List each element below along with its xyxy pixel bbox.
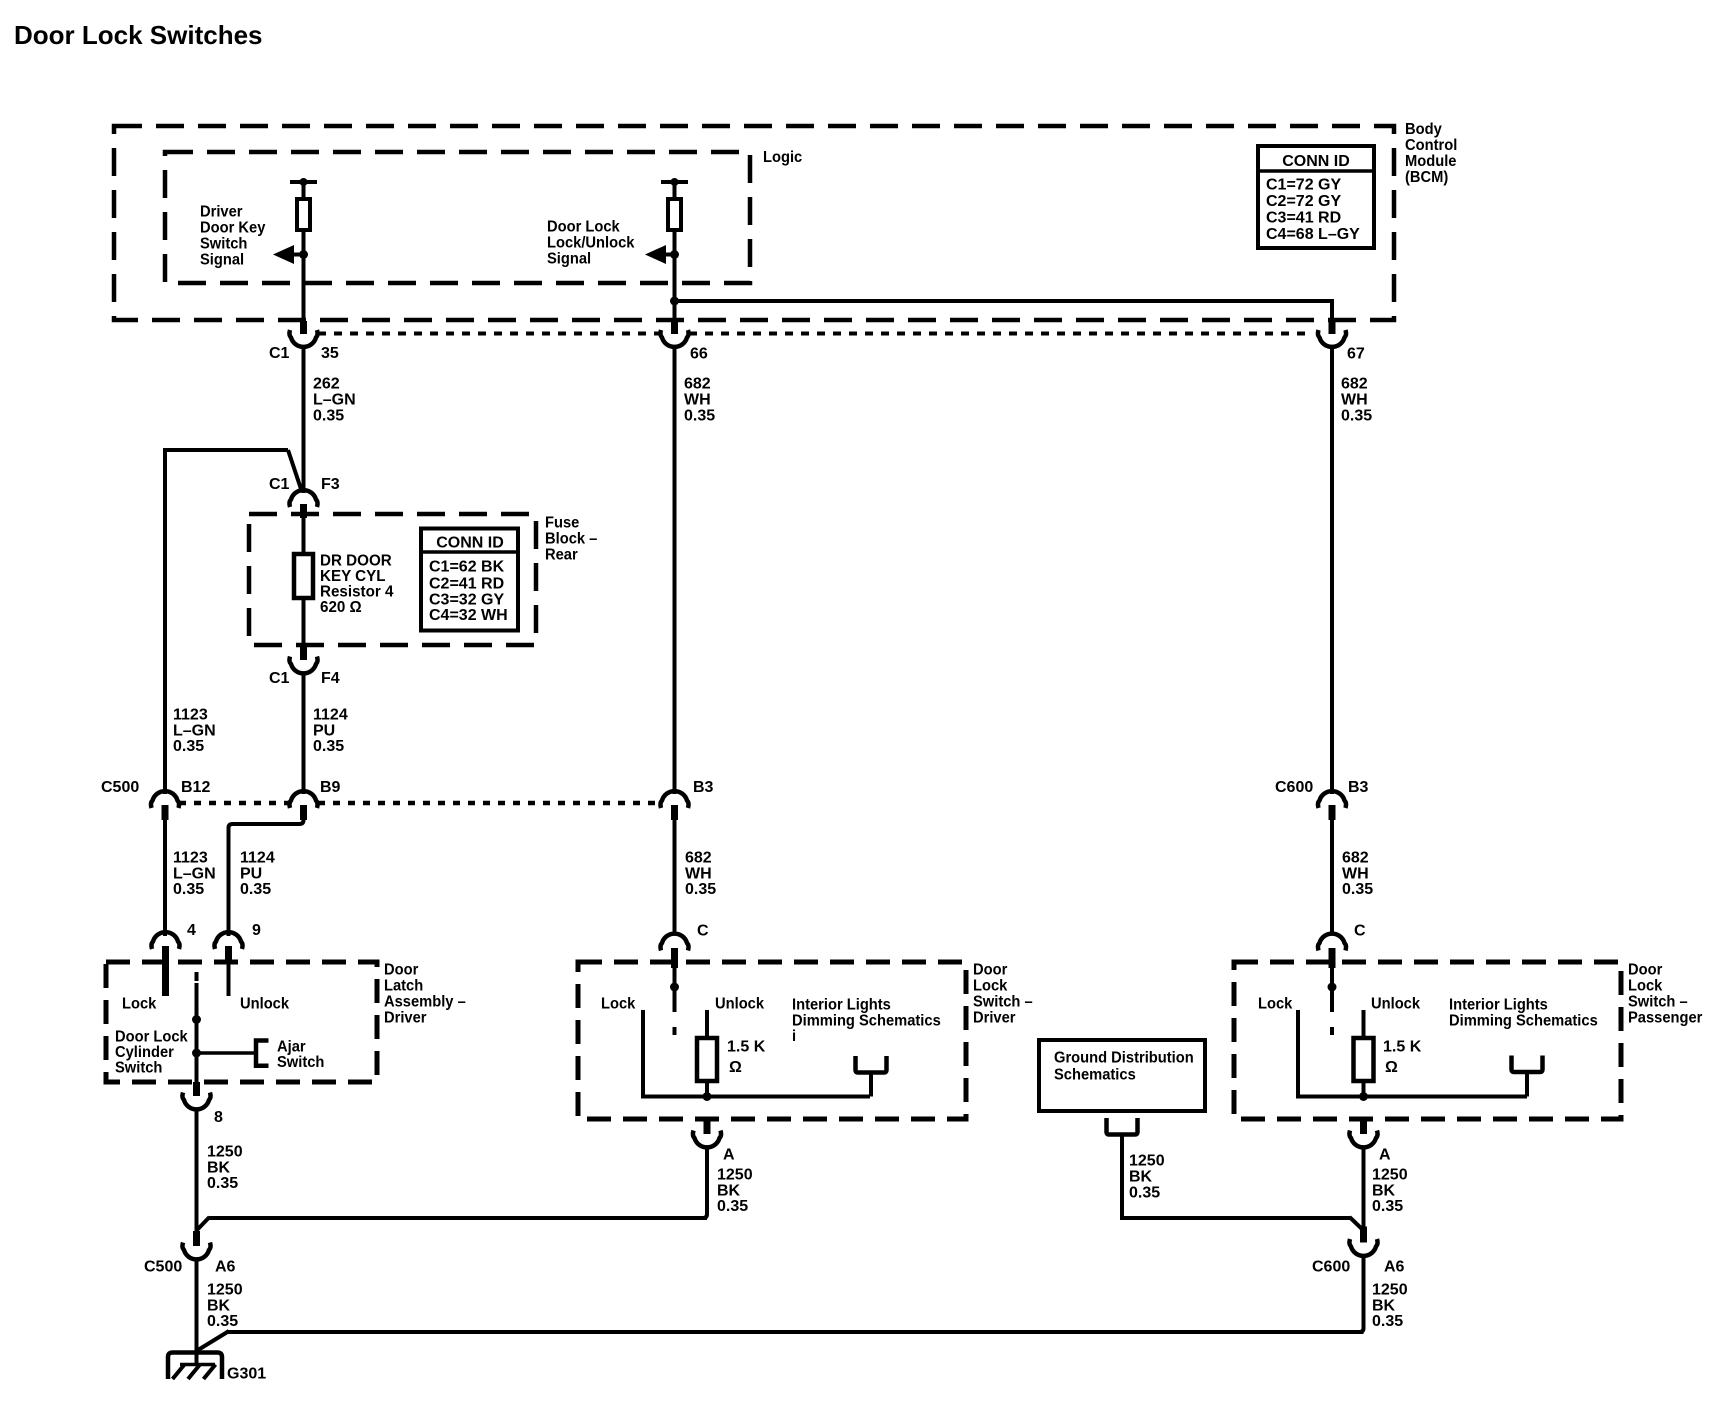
svg-text:682: 682 [684,376,711,393]
off-page reference to interior lights dimming (driver) [856,1056,887,1073]
svg-text:F4: F4 [321,670,340,687]
svg-text:0.35: 0.35 [684,408,715,425]
svg-text:0.35: 0.35 [240,881,271,898]
junction on cylinder switch arm [192,1015,201,1024]
svg-text:C3=32 GY: C3=32 GY [429,592,504,609]
svg-text:PU: PU [240,865,262,882]
wire: T-bar to resistor [673,182,677,200]
connector latch pin 9 [214,932,242,949]
wire: pin 9 to unlock contact [227,960,231,996]
wire: 682 WH C600 B3 to switch pin C [1330,820,1334,935]
svg-text:Door Lock Switches: Door Lock Switches [14,20,263,50]
svg-text:0.35: 0.35 [313,738,344,755]
wire: F3 to resistor [302,518,306,555]
svg-text:66: 66 [690,346,708,363]
svg-text:C1=62 BK: C1=62 BK [429,559,505,576]
svg-text:Switch: Switch [277,1054,324,1072]
connector latch pin 4 [151,932,179,949]
wire: 1250 BK from pin 8 to C500 A6 [195,1110,199,1232]
svg-text:C1: C1 [269,476,290,493]
resistor: driver door key switch pull-up [297,199,310,230]
svg-text:35: 35 [321,345,339,362]
connector pin 67 [1329,321,1336,334]
wire: A to C600 A6 [1362,1148,1366,1228]
wire: T-bar to resistor [302,182,306,200]
svg-text:1250: 1250 [717,1167,753,1184]
wire: jog into ground wire [198,1331,229,1350]
connector C600 A6 [1360,1227,1367,1243]
svg-text:(BCM): (BCM) [1405,169,1448,187]
svg-text:C2=72 GY: C2=72 GY [1266,193,1341,210]
svg-text:WH: WH [1342,865,1369,882]
svg-text:BK: BK [1129,1169,1153,1186]
wire: jog into C500 A6 [197,1217,210,1230]
svg-text:CONN ID: CONN ID [436,535,504,552]
svg-text:0.35: 0.35 [717,1198,748,1215]
svg-text:1124: 1124 [313,707,348,724]
connector C500 B12 [151,791,179,808]
svg-text:C: C [1354,923,1366,940]
svg-text:Schematics: Schematics [1054,1066,1136,1084]
svg-text:C600: C600 [1312,1259,1350,1276]
svg-text:1123: 1123 [173,850,208,867]
svg-text:A: A [723,1147,735,1164]
off-page reference to ground distribution [1107,1118,1138,1135]
junction to ajar switch [192,1049,201,1058]
svg-text:A6: A6 [215,1259,236,1276]
wire: 682 WH pin 66 to B3 [673,347,677,794]
svg-text:BK: BK [207,1159,231,1176]
wire: to ajar switch [197,1051,255,1055]
connector C1 F4 (fuse block) [300,646,307,660]
arrow: Driver Door Key Switch Signal tap [273,245,294,264]
wire: branch loop to door latch (horizontal) [165,448,288,452]
svg-text:0.35: 0.35 [1342,881,1373,898]
svg-text:262: 262 [313,376,340,393]
svg-text:Driver: Driver [973,1009,1016,1027]
svg-text:8: 8 [214,1109,223,1126]
svg-text:1124: 1124 [240,850,275,867]
connector boundary dotted line C1 [318,332,660,336]
svg-text:A6: A6 [1384,1259,1405,1276]
wire: resistor to bus (driver) [705,1081,709,1098]
connector boundary dotted line C500 [179,801,290,806]
arrow: Door Lock Lock/Unlock Signal tap [645,245,666,264]
connector C1 F3 (fuse block) [289,490,317,507]
svg-text:L–GN: L–GN [173,865,216,882]
svg-text:0.35: 0.35 [1341,408,1372,425]
svg-text:Rear: Rear [545,546,578,564]
connector C500 B3 (driver) [660,791,688,808]
svg-text:G301: G301 [227,1366,266,1383]
svg-text:L–GN: L–GN [313,392,356,409]
svg-text:C: C [697,923,709,940]
svg-text:1250: 1250 [1372,1167,1408,1184]
svg-text:C500: C500 [144,1259,182,1276]
svg-text:WH: WH [684,392,711,409]
connector latch pin 8 [193,1082,200,1096]
svg-text:PU: PU [313,722,335,739]
svg-text:0.35: 0.35 [173,881,204,898]
svg-text:Lock: Lock [1258,995,1293,1013]
connector C600 B3 (passenger) [1318,791,1346,808]
svg-text:Unlock: Unlock [715,995,764,1013]
connector passenger switch pin C [1318,934,1346,951]
wire: driver switch ground run (horizontal) [209,1216,707,1220]
svg-text:0.35: 0.35 [313,408,344,425]
svg-text:Driver: Driver [384,1009,427,1027]
wire: C500 A6 to ground G301 [195,1260,199,1364]
wire: resistor to bus (passenger) [1362,1081,1366,1098]
junction: passenger switch output [1359,1092,1368,1101]
svg-text:C4=68 L–GY: C4=68 L–GY [1266,226,1360,243]
svg-text:1123: 1123 [173,707,208,724]
wire: 1250 BK driver A down and left [209,1148,707,1218]
wire: branch loop diagonal into F3 [288,450,302,492]
svg-text:B3: B3 [693,779,714,796]
wire: lock contact (passenger) [1298,1010,1527,1097]
svg-text:682: 682 [1341,376,1368,393]
svg-text:C1: C1 [269,670,290,687]
svg-text:BK: BK [1372,1297,1396,1314]
connector passenger switch pin A [1360,1119,1367,1134]
wire: unlock contact to resistor (passenger) [1362,1010,1366,1039]
svg-text:Passenger: Passenger [1628,1009,1702,1027]
svg-text:1250: 1250 [207,1144,243,1161]
svg-text:0.35: 0.35 [1129,1185,1160,1202]
connector C1 pin 35 [300,321,307,334]
wire: 1124 PU from F4 to B9 [302,674,306,794]
ajar switch half-box symbol [256,1041,269,1066]
connector pin 66 [671,321,678,334]
off-page reference to interior lights dimming (passenger) [1512,1056,1543,1073]
svg-text:Unlock: Unlock [1371,995,1420,1013]
svg-text:1250: 1250 [1129,1153,1165,1170]
svg-text:C3=41 RD: C3=41 RD [1266,210,1341,227]
svg-text:67: 67 [1347,346,1365,363]
svg-text:Switch: Switch [115,1059,162,1077]
svg-text:CONN ID: CONN ID [1282,153,1350,170]
ground G301 symbol [168,1353,222,1380]
fuse block dashed outline [249,514,536,645]
switch arm (door lock cylinder switch, movable contact) [195,972,199,981]
svg-text:Ω: Ω [729,1059,742,1076]
connector C500 B9 [289,791,317,808]
switch arm (passenger, movable contact) [1330,968,1334,1012]
svg-text:L–GN: L–GN [173,722,216,739]
wire: C600 A6 down to ground run [1350,1256,1364,1332]
wire: branch loop left drop [163,448,167,794]
door latch assembly dashed outline [106,962,377,1082]
svg-text:B12: B12 [181,779,210,796]
svg-text:Dimming Schematics: Dimming Schematics [1449,1012,1598,1030]
svg-text:Unlock: Unlock [240,995,289,1013]
svg-text:BK: BK [717,1182,741,1199]
svg-text:682: 682 [1342,850,1369,867]
svg-text:0.35: 0.35 [207,1313,238,1330]
wire: 682 WH pin 67 to C600 B3 [1330,347,1334,794]
svg-text:Logic: Logic [763,148,803,166]
svg-text:Lock: Lock [601,995,636,1013]
svg-text:WH: WH [685,865,712,882]
svg-text:620 Ω: 620 Ω [320,599,362,616]
svg-text:0.35: 0.35 [1372,1313,1403,1330]
node: door lock lock/unlock signal source (T-bar) [661,180,688,184]
svg-text:4: 4 [187,922,196,939]
svg-text:Ω: Ω [1385,1059,1398,1076]
svg-text:F3: F3 [321,476,340,493]
svg-text:C2=41 RD: C2=41 RD [429,575,504,592]
svg-text:682: 682 [685,850,712,867]
svg-text:B9: B9 [320,779,341,796]
wire: 682 WH B3 to switch pin C [673,820,677,935]
resistor 1.5 K (driver) [697,1038,717,1081]
wire: branch from 66 run to pin 67 [675,299,1333,303]
logic sub-box dashed outline [165,152,750,283]
svg-text:Ground Distribution: Ground Distribution [1054,1049,1194,1067]
switch arm (driver, movable contact) [673,968,677,1012]
svg-text:0.35: 0.35 [1372,1198,1403,1215]
svg-text:WH: WH [1341,392,1368,409]
resistor: DR DOOR KEY CYL Resistor 4 620 ohm [294,554,313,598]
wire: 1123 L-GN from B12 to latch pin 4 [163,820,167,936]
junction: branch to pin 67 [670,297,679,306]
svg-text:C600: C600 [1275,779,1313,796]
node: driver door key switch signal source (T-bar) [290,180,317,184]
connector driver switch pin A [704,1119,711,1134]
svg-text:BK: BK [1372,1182,1396,1199]
svg-text:BK: BK [207,1297,231,1314]
wire: 1124 PU jog from B9 to latch pin 9 [229,818,304,936]
svg-text:Signal: Signal [200,251,244,269]
svg-text:A: A [1379,1147,1391,1164]
svg-text:Dimming Schematics: Dimming Schematics [792,1012,941,1030]
ground distribution schematics box [1039,1040,1205,1111]
junction: driver switch output [703,1092,712,1101]
svg-text:C500: C500 [101,779,139,796]
CONN ID table (fuse block) [421,529,518,631]
wire: lock contact (driver) [643,1010,870,1097]
svg-text:C1=72 GY: C1=72 GY [1266,176,1341,193]
wire: resistor to BCM pin 66 [673,230,677,322]
svg-text:1250: 1250 [207,1282,243,1299]
svg-text:B3: B3 [1348,779,1369,796]
wire: resistor to BCM pin 35 [302,230,306,322]
wire: resistor to F4 [302,598,306,647]
connector C500 A6 [193,1231,200,1246]
connector driver switch pin C [660,934,688,951]
CONN ID table (BCM) [1258,146,1374,248]
svg-text:C1: C1 [269,345,290,362]
svg-text:0.35: 0.35 [207,1175,238,1192]
wire: 262 L-GN from pin 35 to fuse block F3 [302,347,306,493]
svg-text:0.35: 0.35 [173,738,204,755]
door lock switch driver dashed outline [578,962,966,1119]
wire: unlock contact to resistor (driver) [705,1010,709,1039]
svg-text:1.5 K: 1.5 K [727,1039,766,1056]
door lock switch passenger dashed outline [1234,962,1621,1119]
svg-text:i: i [792,1028,796,1046]
svg-text:9: 9 [252,922,261,939]
svg-text:Lock: Lock [122,995,157,1013]
resistor 1.5 K (passenger) [1354,1038,1374,1081]
svg-text:0.35: 0.35 [685,881,716,898]
BCM module dashed outline [114,126,1394,320]
junction: switch common [670,983,679,992]
wire: ground distribution run to C600 [1120,1216,1350,1220]
svg-text:Signal: Signal [547,250,591,268]
resistor: door lock lock/unlock pull-up [668,199,681,230]
junction: switch common (passenger) [1328,983,1337,992]
wire: passenger ground run (horizontal) [228,1330,1364,1334]
svg-text:1.5 K: 1.5 K [1383,1039,1422,1056]
svg-text:C4=32 WH: C4=32 WH [429,607,508,624]
svg-text:1250: 1250 [1372,1282,1408,1299]
